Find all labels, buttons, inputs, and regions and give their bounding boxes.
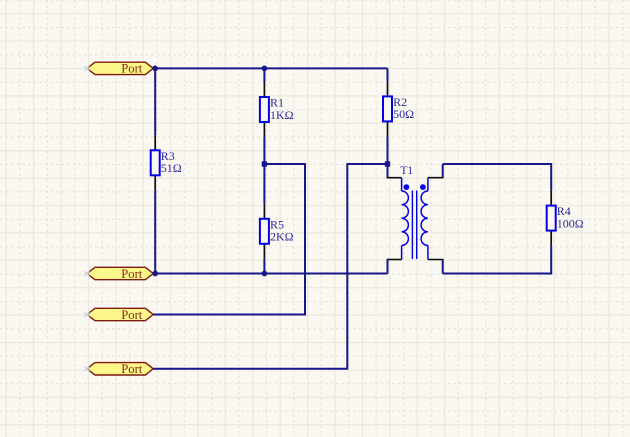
transformer T1 core xyxy=(412,191,416,260)
svg-text:2KΩ: 2KΩ xyxy=(270,230,294,244)
junction port P1 / top rail xyxy=(152,66,158,72)
port P3 xyxy=(84,308,153,322)
svg-text:Port: Port xyxy=(121,62,142,76)
resistor R4 xyxy=(547,191,556,246)
resistor R5 xyxy=(260,204,269,259)
svg-text:T1: T1 xyxy=(400,165,413,177)
resistor R2 xyxy=(383,81,392,136)
resistor R1 xyxy=(260,82,269,137)
svg-text:Port: Port xyxy=(121,267,142,281)
svg-text:Port: Port xyxy=(121,308,142,322)
svg-text:51Ω: 51Ω xyxy=(161,161,182,175)
svg-text:Port: Port xyxy=(121,362,142,376)
wire top rail xyxy=(153,67,387,69)
wire R3 branch upper xyxy=(154,68,156,135)
junction node B (R2/T1/P4) xyxy=(385,161,390,166)
junction port P2 / bottom rail xyxy=(152,271,158,277)
port P1 xyxy=(84,62,153,76)
transformer T1 pin 1 (primary top) xyxy=(387,164,402,191)
junction node A (R1/R5/P3) xyxy=(262,161,267,166)
transformer winding secondary xyxy=(421,191,428,245)
wire bottom rail xyxy=(153,273,387,275)
port P2 xyxy=(84,267,153,281)
wire secondary top to R4 xyxy=(443,164,552,191)
port P4 xyxy=(84,362,153,376)
junction R1 top xyxy=(262,66,268,72)
svg-text:1KΩ: 1KΩ xyxy=(270,108,294,122)
wire R5 branch upper xyxy=(263,164,265,204)
wire R2 branch upper xyxy=(387,68,389,81)
transformer winding primary xyxy=(402,191,409,245)
wire port P4 net xyxy=(153,164,387,369)
transformer T1 pin 3 (secondary top) xyxy=(428,164,444,191)
transformer T1 polarity dot primary xyxy=(404,184,410,190)
wire port P3 net xyxy=(153,164,305,315)
wire R1 branch upper xyxy=(263,68,265,82)
wire R1 branch lower xyxy=(263,137,265,164)
junction R5 bottom xyxy=(262,271,268,277)
transformer T1 pin 2 (primary bottom) xyxy=(387,245,402,273)
resistor R3 xyxy=(151,135,160,190)
transformer T1 pin 4 (secondary bottom) xyxy=(428,245,444,273)
wire R3 branch lower xyxy=(154,190,156,273)
wire R4 to secondary bottom xyxy=(443,246,552,274)
svg-text:50Ω: 50Ω xyxy=(393,107,414,121)
svg-text:100Ω: 100Ω xyxy=(557,216,584,230)
transformer T1 polarity dot secondary xyxy=(420,184,426,190)
wire R2 branch lower xyxy=(387,136,389,164)
wire R5 branch lower xyxy=(263,259,265,274)
